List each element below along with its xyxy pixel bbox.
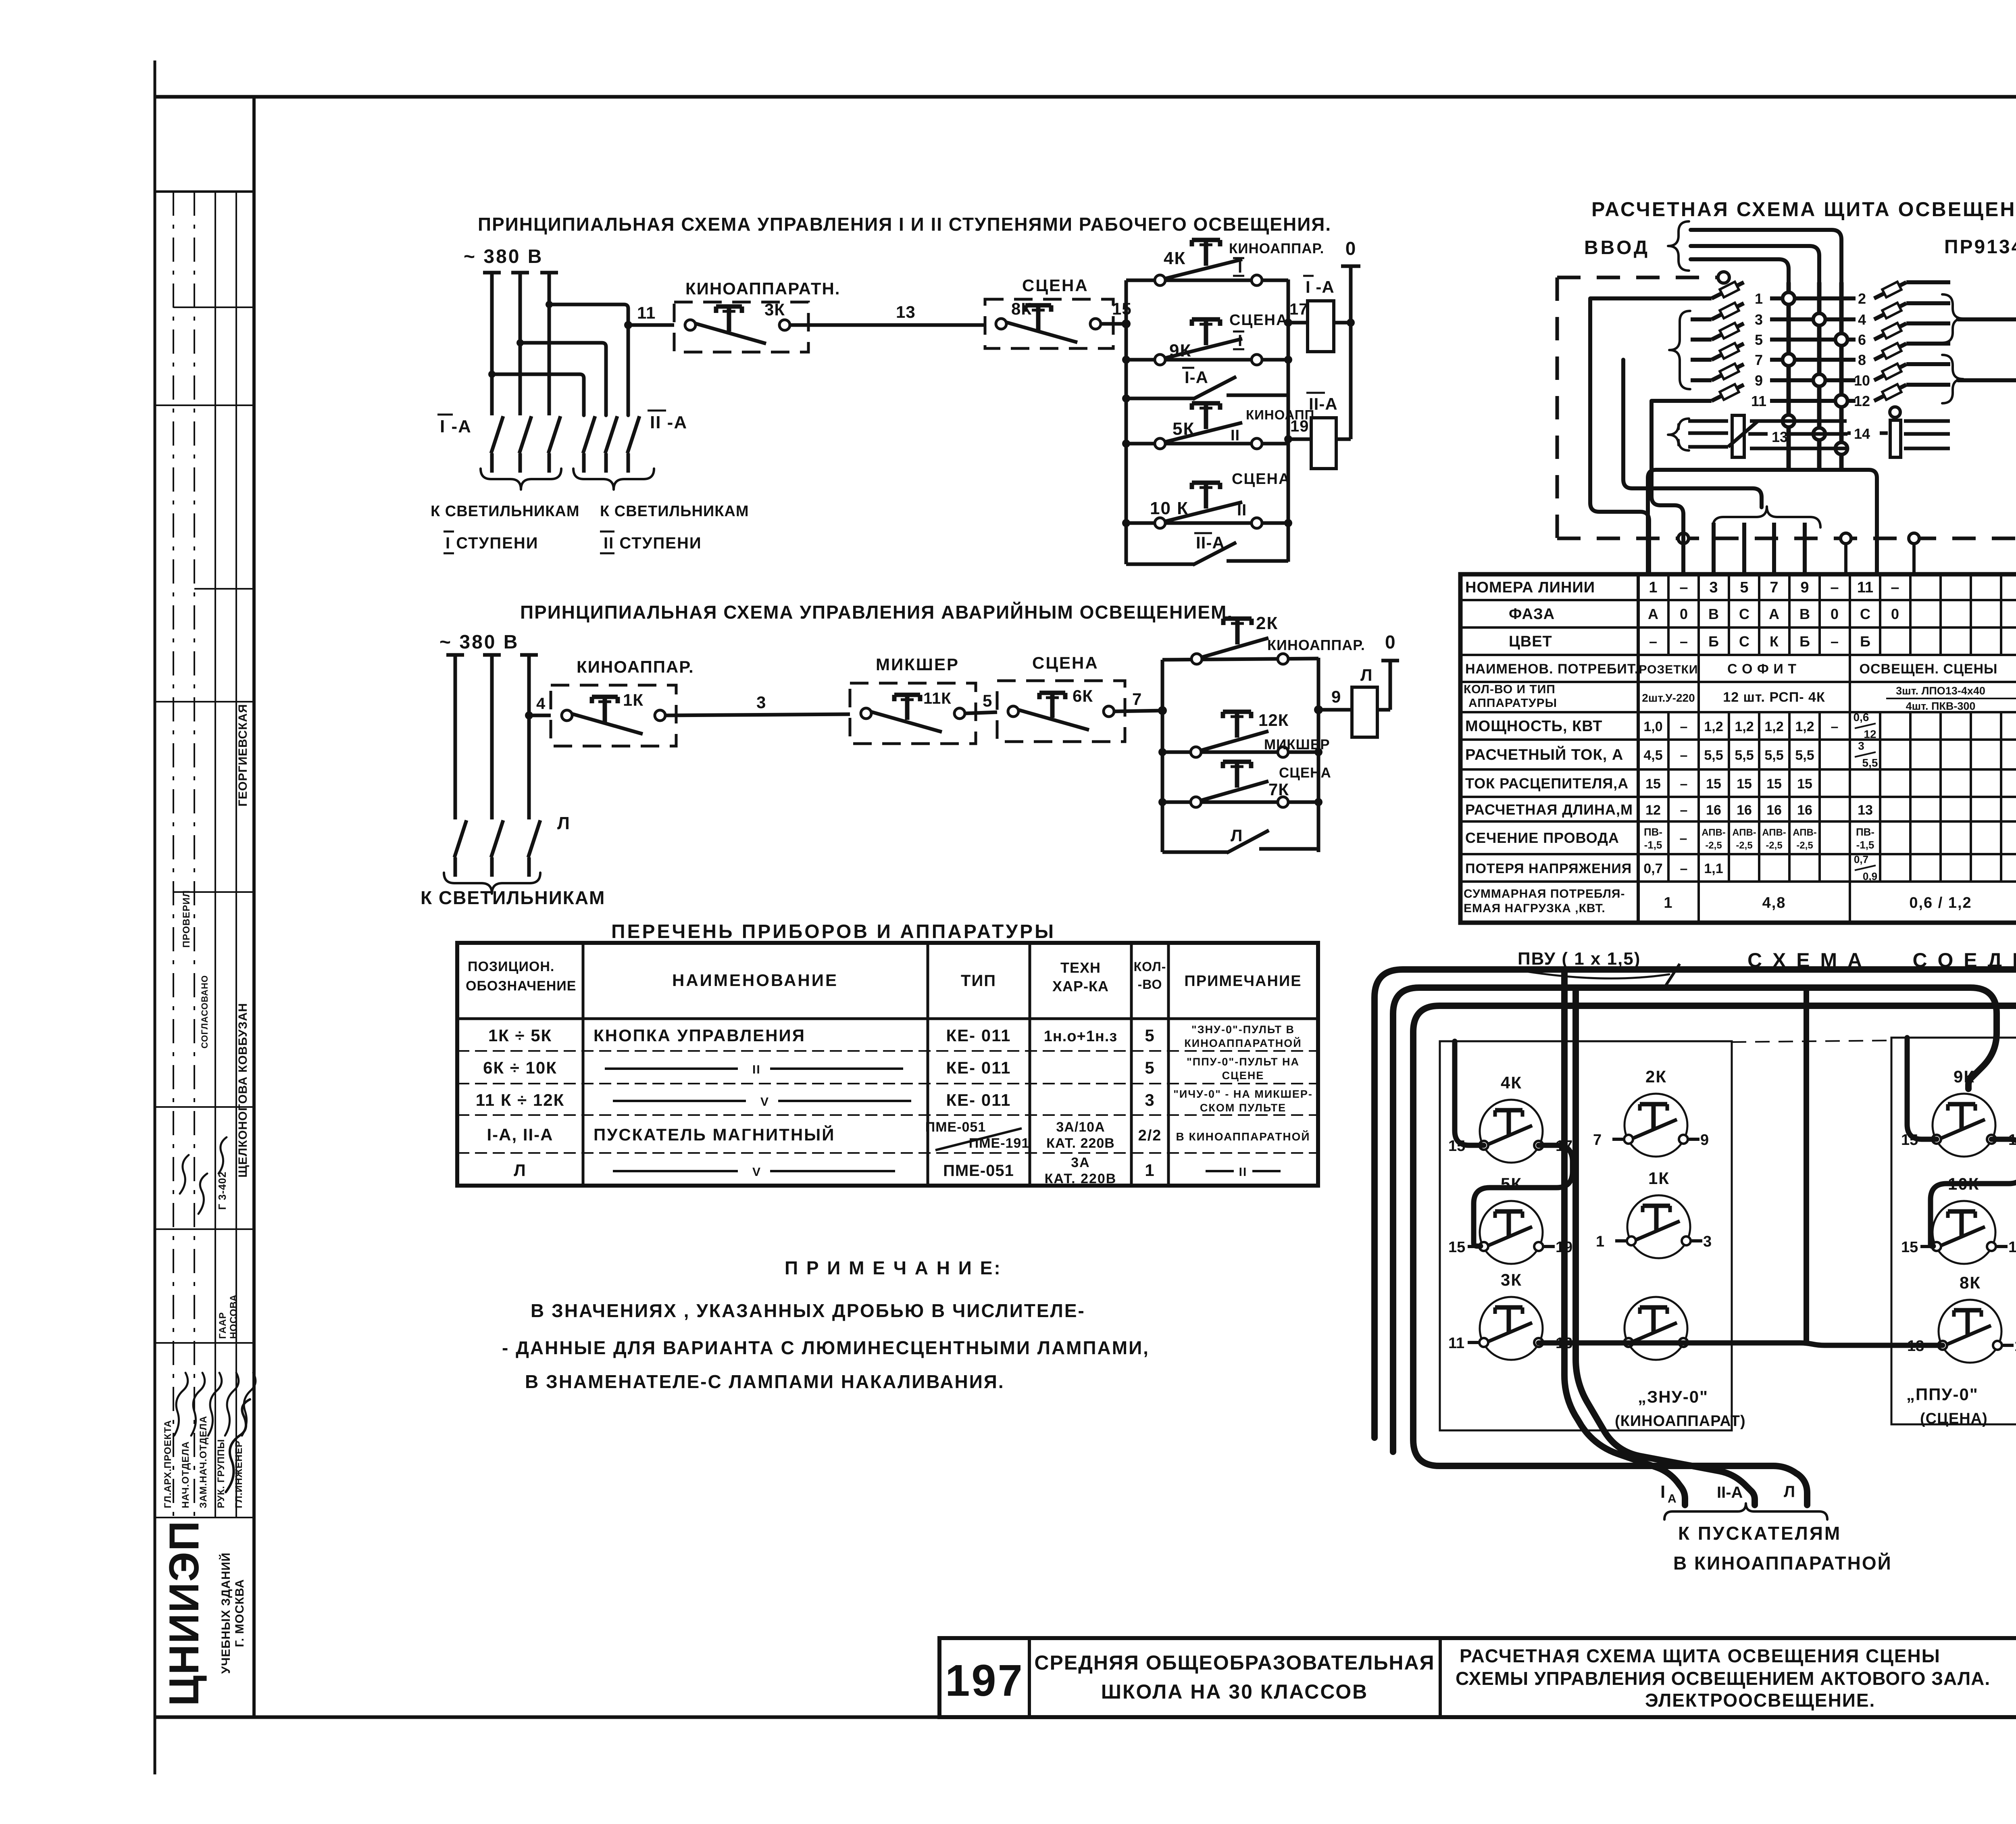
svg-text:2: 2 (1858, 290, 1866, 307)
circuit breaker line 3 (1691, 303, 1856, 328)
pushbutton 5K rung Kinoapp II (1126, 403, 1319, 449)
svg-text:5К: 5К (1501, 1174, 1522, 1193)
svg-text:12: 12 (1854, 393, 1870, 409)
svg-text:ГААР: ГААР (217, 1312, 228, 1339)
svg-text:С О Ф И Т: С О Ф И Т (1727, 661, 1797, 677)
svg-text:17: 17 (1289, 300, 1308, 318)
svg-text:КАТ. 220В: КАТ. 220В (1046, 1136, 1115, 1151)
ladder left rail (1122, 280, 1130, 564)
svg-text:СХЕМЫ УПРАВЛЕНИЯ ОСВЕЩЕНИЕМ А: СХЕМЫ УПРАВЛЕНИЯ ОСВЕЩЕНИЕМ АКТОВОГО ЗАЛ… (1456, 1668, 1990, 1689)
node 15 (1101, 299, 1132, 328)
pushbutton 5K terminals 15-19 (1448, 1174, 1572, 1264)
row release current A (1645, 776, 2016, 792)
phase buses bottom collector (1648, 470, 1877, 574)
svg-text:-2,5: -2,5 (1736, 840, 1752, 851)
svg-text:~ 380 В: ~ 380 В (464, 246, 543, 267)
svg-text:А: А (1769, 606, 1779, 622)
svg-text:АПВ-: АПВ- (1793, 827, 1817, 838)
row pushbuttons 1K-5K (488, 1024, 1302, 1049)
svg-text:КИНОАППАР.: КИНОАППАР. (1229, 241, 1324, 256)
svg-text:КОЛ-: КОЛ- (1134, 959, 1166, 974)
svg-text:А: А (1648, 606, 1658, 622)
svg-text:В ЗНАЧЕНИЯХ , УКАЗАННЫХ ДРОБЬ: В ЗНАЧЕНИЯХ , УКАЗАННЫХ ДРОБЬЮ В ЧИСЛИТЕ… (531, 1300, 1085, 1321)
load table grid (1460, 574, 2016, 923)
svg-text:-ВО: -ВО (1138, 977, 1162, 992)
svg-text:0,6 / 1,2: 0,6 / 1,2 (1909, 894, 1972, 911)
svg-text:РАСЧЕТНАЯ ДЛИНА,М: РАСЧЕТНАЯ ДЛИНА,М (1465, 801, 1633, 818)
svg-text:ГЛ.ИНЖЕНЕР: ГЛ.ИНЖЕНЕР (233, 1440, 244, 1508)
svg-text:15: 15 (1112, 299, 1132, 318)
svg-text:КЕ- 011: КЕ- 011 (946, 1058, 1011, 1077)
svg-text:СРЕДНЯЯ ОБЩЕОБРАЗОВАТЕЛЬНАЯ: СРЕДНЯЯ ОБЩЕОБРАЗОВАТЕЛЬНАЯ (1034, 1651, 1435, 1674)
svg-text:РАСЧЕТНЫЙ ТОК, А: РАСЧЕТНЫЙ ТОК, А (1465, 745, 1623, 763)
left stamp strip (155, 97, 254, 1717)
svg-text:К СВЕТИЛЬНИКАМ: К СВЕТИЛЬНИКАМ (600, 503, 749, 520)
row magnetic starters I-A II-A (487, 1119, 1310, 1151)
svg-text:II-А: II-А (1717, 1484, 1743, 1501)
svg-text:Г. МОСКВА: Г. МОСКВА (233, 1579, 246, 1647)
svg-text:15: 15 (1706, 776, 1721, 792)
svg-text:II: II (1231, 427, 1240, 444)
svg-text:СОГЛАСОВАНО: СОГЛАСОВАНО (200, 975, 210, 1049)
svg-text:В: В (1799, 606, 1810, 622)
svg-text:СЦЕНА: СЦЕНА (1032, 653, 1099, 672)
svg-text:V: V (760, 1095, 769, 1109)
svg-text:8К: 8К (1960, 1273, 1981, 1292)
svg-text:РУК. ГРУППЫ: РУК. ГРУППЫ (216, 1439, 227, 1508)
svg-text:5: 5 (1145, 1058, 1155, 1077)
svg-text:КНОПКА УПРАВЛЕНИЯ: КНОПКА УПРАВЛЕНИЯ (594, 1026, 806, 1045)
svg-text:11: 11 (637, 303, 656, 322)
pushbutton 9K terminals 15-17 (1901, 1067, 2016, 1157)
svg-text:12К: 12К (1258, 711, 1289, 730)
svg-text:4шт. ПКВ-300: 4шт. ПКВ-300 (1906, 700, 1976, 712)
svg-text:6: 6 (1858, 331, 1866, 348)
svg-text:2К: 2К (1256, 613, 1278, 633)
svg-text:АПВ-: АПВ- (1732, 827, 1756, 838)
group II brace and load label (573, 469, 749, 553)
svg-text:СУММАРНАЯ ПОТРЕБЛЯ-: СУММАРНАЯ ПОТРЕБЛЯ- (1464, 887, 1625, 901)
svg-text:15: 15 (1766, 776, 1782, 792)
circuit breaker line 4 (1858, 303, 1950, 328)
row voltage loss (1643, 853, 2016, 882)
svg-text:11: 11 (1751, 393, 1766, 409)
svg-text:1,0: 1,0 (1643, 719, 1662, 734)
wire trunk second run (1393, 988, 1997, 1452)
svg-text:Б: Б (1708, 633, 1719, 650)
svg-text:ТИП: ТИП (961, 972, 996, 990)
svg-text:ПВУ ( 1 х 1,5): ПВУ ( 1 х 1,5) (1518, 949, 1641, 969)
svg-text:2/2: 2/2 (1138, 1127, 1162, 1144)
svg-text:В КИНОАППАРАТНОЙ: В КИНОАППАРАТНОЙ (1176, 1130, 1310, 1143)
svg-text:К СВЕТИЛЬНИКАМ: К СВЕТИЛЬНИКАМ (431, 503, 580, 520)
contactor I-A main contacts (437, 415, 560, 473)
wire jumper L1 to II group (488, 371, 584, 415)
svg-text:II: II (1239, 1165, 1248, 1179)
svg-text:I -А: I -А (1306, 277, 1335, 296)
svg-text:ПРИНЦИПИАЛЬНАЯ СХЕМА УПРАВЛЕНИ: ПРИНЦИПИАЛЬНАЯ СХЕМА УПРАВЛЕНИЯ АВАРИЙНЫ… (520, 602, 1233, 623)
svg-text:15: 15 (1901, 1239, 1918, 1256)
svg-text:3: 3 (1858, 740, 1864, 752)
svg-text:ТОК РАСЦЕПИТЕЛЯ,А: ТОК РАСЦЕПИТЕЛЯ,А (1465, 775, 1629, 792)
circuit breaker line 5 (1691, 323, 1856, 348)
svg-text:10: 10 (1854, 372, 1870, 389)
svg-text:С: С (1739, 606, 1749, 622)
pushbutton 7K rung Scena (1162, 762, 1331, 807)
svg-text:–: – (1680, 748, 1688, 763)
input feeder lines (1691, 230, 1841, 468)
svg-text:4К: 4К (1164, 248, 1186, 268)
svg-text:ВВОД: ВВОД (1584, 237, 1650, 258)
fuse line 13 (1668, 415, 1847, 457)
svg-text:8К: 8К (1011, 299, 1032, 318)
svg-text:–: – (1680, 719, 1688, 734)
svg-text:19: 19 (1290, 417, 1309, 435)
svg-text:Л: Л (1784, 1483, 1795, 1501)
neutral 0 line emergency (1381, 632, 1399, 710)
svg-text:–: – (1830, 579, 1839, 596)
pushbutton 3K in Kinoapparatn box (674, 279, 840, 352)
svg-text:Л: Л (1360, 665, 1372, 684)
svg-text:3: 3 (1703, 1233, 1712, 1250)
control wire 5 (965, 691, 997, 713)
svg-text:7: 7 (1755, 352, 1763, 368)
svg-text:ПМЕ-191: ПМЕ-191 (969, 1136, 1030, 1151)
wire 4K pin15 feed (1455, 1041, 1484, 1145)
svg-text:РАСЧЕТНАЯ СХЕМА ЩИТА ОСВЕЩЕНИ: РАСЧЕТНАЯ СХЕМА ЩИТА ОСВЕЩЕНИЯ СЦЕНЫ (1460, 1645, 1941, 1666)
svg-text:Л: Л (557, 813, 571, 833)
svg-text:0: 0 (1345, 238, 1356, 259)
svg-text:-2,5: -2,5 (1796, 840, 1813, 851)
svg-text:Л: Л (1231, 826, 1243, 845)
svg-text:5: 5 (1145, 1026, 1155, 1045)
svg-text:I -А: I -А (440, 417, 472, 436)
svg-text:I СТУПЕНИ: I СТУПЕНИ (446, 534, 539, 552)
svg-text:-1,5: -1,5 (1644, 839, 1662, 851)
svg-text:К: К (1770, 633, 1779, 650)
svg-text:НОМЕРА ЛИНИИ: НОМЕРА ЛИНИИ (1465, 579, 1595, 596)
svg-text:II-А: II-А (1309, 394, 1338, 413)
svg-text:НАИМЕНОВАНИЕ: НАИМЕНОВАНИЕ (672, 971, 838, 990)
svg-text:6К ÷ 10К: 6К ÷ 10К (483, 1058, 557, 1077)
pushbutton 6K in Scena box (997, 653, 1125, 742)
control wire 11 (624, 303, 674, 329)
wire 9K pin15 feed (1907, 1038, 1937, 1139)
pushbutton 4K terminals 15-17 (1448, 1073, 1572, 1163)
svg-text:V: V (752, 1165, 761, 1179)
wire 8K to 3K run (1539, 1343, 1943, 1345)
svg-text:0: 0 (1385, 632, 1396, 652)
svg-text:13: 13 (1858, 803, 1873, 818)
phase bus L1 (483, 273, 501, 415)
svg-text:1К: 1К (623, 690, 644, 709)
pushbutton 1K in Kinoappar box (551, 657, 694, 746)
svg-text:7К: 7К (1268, 780, 1289, 799)
svg-text:ОБОЗНАЧЕНИЕ: ОБОЗНАЧЕНИЕ (466, 978, 576, 994)
neutral 0 line (1341, 238, 1360, 439)
svg-text:Г 3-402: Г 3-402 (216, 1172, 228, 1210)
svg-text:ЭЛЕКТРООСВЕЩЕНИЕ.: ЭЛЕКТРООСВЕЩЕНИЕ. (1645, 1690, 1875, 1711)
circuit breaker line 7 (1691, 343, 1856, 368)
svg-text:5,5: 5,5 (1704, 748, 1723, 763)
svg-text:СЦЕНЕ: СЦЕНЕ (1222, 1069, 1264, 1082)
svg-text:ОСВЕЩЕН. СЦЕНЫ: ОСВЕЩЕН. СЦЕНЫ (1860, 661, 1998, 677)
panel box PPU-0 scena (1891, 1038, 2016, 1427)
svg-text:–: – (1679, 579, 1688, 596)
soffit group feeder (1623, 360, 1820, 574)
svg-text:1,2: 1,2 (1735, 719, 1754, 734)
row design length m (1645, 803, 2016, 818)
svg-text:9: 9 (1800, 579, 1809, 596)
svg-text:МИКШЕР: МИКШЕР (876, 655, 959, 674)
svg-text:ЦВЕТ: ЦВЕТ (1509, 633, 1552, 650)
svg-text:КЕ- 011: КЕ- 011 (946, 1090, 1011, 1109)
svg-text:0: 0 (1831, 606, 1839, 622)
svg-text:АПВ-: АПВ- (1762, 827, 1786, 838)
svg-text:МОЩНОСТЬ, КВТ: МОЩНОСТЬ, КВТ (1465, 718, 1602, 735)
svg-text:–: – (1680, 831, 1688, 846)
svg-text:СЕЧЕНИЕ ПРОВОДА: СЕЧЕНИЕ ПРОВОДА (1465, 830, 1619, 846)
svg-text:МИКШЕР: МИКШЕР (1264, 737, 1330, 753)
node 9 and coil L (1318, 665, 1390, 737)
input feeder brace (1668, 221, 1689, 271)
auxiliary contact II-A rung (1126, 523, 1288, 565)
svg-text:ПМЕ-051: ПМЕ-051 (943, 1162, 1014, 1180)
svg-text:Л: Л (514, 1161, 526, 1180)
auxiliary contact L rung (1162, 826, 1318, 853)
svg-text:В: В (1708, 606, 1719, 622)
svg-text:АПВ-: АПВ- (1702, 827, 1726, 838)
svg-text:КАТ. 220В: КАТ. 220В (1045, 1171, 1117, 1186)
svg-text:–: – (1831, 719, 1839, 734)
svg-text:РОЗЕТКИ: РОЗЕТКИ (1639, 663, 1698, 676)
svg-text:II-А: II-А (1196, 533, 1225, 552)
svg-text:1,2: 1,2 (1704, 719, 1723, 734)
left feeder drop to row 1 (1590, 298, 1649, 574)
ladder right rail (1284, 279, 1292, 562)
svg-text:НАЧ.ОТДЕЛА: НАЧ.ОТДЕЛА (180, 1441, 191, 1508)
svg-text:ПУСКАТЕЛЬ МАГНИТНЫЙ: ПУСКАТЕЛЬ МАГНИТНЫЙ (594, 1125, 835, 1144)
svg-text:1: 1 (1664, 894, 1673, 911)
svg-text:11 К ÷ 12К: 11 К ÷ 12К (476, 1090, 564, 1109)
svg-text:0,6: 0,6 (1854, 711, 1869, 723)
svg-text:4: 4 (536, 695, 546, 713)
svg-text:1н.о+1н.з: 1н.о+1н.з (1044, 1028, 1118, 1045)
auxiliary contact I-A rung (1126, 368, 1288, 399)
svg-text:II -А: II -А (650, 413, 687, 432)
svg-text:ЗАМ.НАЧ.ОТДЕЛА: ЗАМ.НАЧ.ОТДЕЛА (198, 1416, 209, 1508)
svg-text:1: 1 (1145, 1161, 1155, 1180)
svg-text:–: – (1680, 803, 1688, 818)
control wire 13 (790, 302, 985, 325)
svg-text:197: 197 (945, 1656, 1024, 1705)
group I brace and load label (431, 469, 580, 553)
svg-text:1: 1 (1649, 579, 1657, 596)
svg-text:1: 1 (1755, 290, 1763, 307)
svg-text:ТЕХН: ТЕХН (1060, 959, 1101, 976)
row phase (1648, 606, 2016, 622)
svg-text:ХАР-КА: ХАР-КА (1052, 978, 1109, 994)
svg-text:1,2: 1,2 (1795, 719, 1814, 734)
ladder 2 left rail (1158, 660, 1167, 852)
title block sheet series number 197 (945, 1656, 1024, 1705)
svg-text:КОЛ-ВО И ТИП: КОЛ-ВО И ТИП (1464, 683, 1556, 696)
svg-text:9: 9 (1331, 687, 1341, 706)
svg-text:14: 14 (1854, 425, 1870, 442)
wire mid column riser 1 to I-A lead (1564, 969, 1685, 1505)
svg-text:ЩЕЛКОНОГОВА КОВБУЗАН: ЩЕЛКОНОГОВА КОВБУЗАН (236, 1003, 250, 1178)
svg-text:УЧЕБНЫХ ЗДАНИЙ: УЧЕБНЫХ ЗДАНИЙ (219, 1552, 233, 1674)
row pushbuttons 6K-10K (483, 1056, 1300, 1082)
pushbutton 10K rung Scena II (1126, 471, 1290, 528)
svg-text:ЦНИИЭП: ЦНИИЭП (161, 1520, 208, 1706)
pushbutton 11K in Miksher box (850, 655, 976, 744)
output brace lines 8-12 (1942, 355, 2016, 561)
svg-text:В ЗНАМЕНАТЕЛЕ-С ЛАМПАМИ НАК: В ЗНАМЕНАТЕЛЕ-С ЛАМПАМИ НАКАЛИВАНИЯ. (525, 1371, 1005, 1392)
svg-text:9: 9 (1700, 1132, 1709, 1149)
node 17 and coil I-A (1288, 276, 1351, 352)
svg-text:5,5: 5,5 (1735, 748, 1754, 763)
wire drop between boxes to 8K (1804, 988, 1809, 1343)
svg-text:12 шт. РСП- 4К: 12 шт. РСП- 4К (1723, 690, 1825, 705)
svg-text:11: 11 (1857, 579, 1873, 596)
svg-text:11: 11 (1448, 1335, 1464, 1352)
row power kW (1643, 711, 2016, 740)
svg-text:ПВ-: ПВ- (1856, 826, 1874, 838)
svg-text:С: С (1739, 633, 1749, 650)
pushbutton 1K terminals 1-3 (1596, 1169, 1712, 1258)
control wire 4 (525, 695, 551, 719)
svg-text:ПРИНЦИПИАЛЬНАЯ СХЕМА УПРАВЛЕНИ: ПРИНЦИПИАЛЬНАЯ СХЕМА УПРАВЛЕНИЯ I И II С… (478, 214, 1331, 235)
svg-text:(СЦЕНА): (СЦЕНА) (1920, 1410, 1988, 1427)
svg-text:ПМЕ-051: ПМЕ-051 (925, 1119, 986, 1135)
wire 9K loop (1931, 1139, 2016, 1246)
svg-text:-2,5: -2,5 (1766, 840, 1782, 851)
svg-text:II СТУПЕНИ: II СТУПЕНИ (604, 534, 702, 552)
svg-text:„ППУ-0": „ППУ-0" (1906, 1385, 1979, 1404)
schematic 1 title (478, 214, 1331, 235)
box top dashed bridge left-mid (1732, 1040, 1891, 1042)
svg-text:9: 9 (1755, 372, 1763, 389)
cross bus verticals (1783, 282, 1847, 468)
svg-text:ЕМАЯ НАГРУЗКА ,КВТ.: ЕМАЯ НАГРУЗКА ,КВТ. (1464, 902, 1606, 915)
svg-text:ФАЗА: ФАЗА (1509, 606, 1555, 623)
svg-text:3: 3 (1145, 1090, 1155, 1109)
phase bus L2 (511, 273, 529, 415)
row consumer names (1639, 660, 2016, 677)
svg-text:НОСОВА: НОСОВА (228, 1294, 239, 1339)
wire 4K loop (1474, 1145, 1572, 1246)
circuit breaker line 9 (1691, 364, 1856, 389)
svg-text:–: – (1649, 633, 1657, 650)
svg-text:3: 3 (1709, 579, 1718, 596)
svg-text:10 К: 10 К (1150, 498, 1189, 518)
svg-text:9К: 9К (1169, 341, 1191, 361)
pushbutton 3K terminals 11-13 (1448, 1270, 1572, 1360)
svg-text:СЦЕНА: СЦЕНА (1232, 471, 1290, 488)
node 19 and coil II-A (1288, 393, 1351, 469)
svg-text:0: 0 (1891, 606, 1899, 622)
panel type label PR9134-313 (1944, 236, 2016, 258)
pushbutton 2K rung Kinoappar (1162, 613, 1365, 664)
svg-text:5,5: 5,5 (1764, 748, 1783, 763)
svg-text:П Р И М Е Ч А Н И Е:: П Р И М Е Ч А Н И Е: (785, 1257, 1002, 1278)
row apparatus count and type (1642, 685, 2016, 712)
svg-text:15: 15 (2014, 1338, 2016, 1355)
svg-text:1,1: 1,1 (1704, 861, 1723, 876)
svg-text:КИНОАППАРАТН.: КИНОАППАРАТН. (685, 279, 840, 298)
svg-text:ПВ-: ПВ- (1644, 826, 1662, 838)
circuit breaker line 8 (1858, 343, 1950, 368)
calc schematic title (1591, 198, 2016, 221)
load table row labels (1464, 579, 1639, 915)
svg-text:Б: Б (1860, 633, 1870, 650)
svg-text:15: 15 (1448, 1239, 1465, 1256)
svg-text:"ИЧУ-0" - НА МИКШЕР-: "ИЧУ-0" - НА МИКШЕР- (1173, 1088, 1313, 1100)
svg-text:АППАРАТУРЫ: АППАРАТУРЫ (1468, 696, 1557, 710)
svg-text:16: 16 (1706, 803, 1721, 818)
svg-text:4К: 4К (1501, 1073, 1522, 1092)
circuit breaker line 1 (1590, 282, 1856, 307)
svg-text:КИНОАППАРАТНОЙ: КИНОАППАРАТНОЙ (1184, 1037, 1302, 1049)
row pushbuttons 11K-12K (476, 1088, 1313, 1114)
svg-text:–: – (1680, 861, 1688, 876)
svg-text:3К: 3К (1501, 1270, 1522, 1289)
pushbutton 2K terminals 7-9 (1593, 1067, 1709, 1157)
svg-text:7: 7 (1770, 579, 1778, 596)
svg-text:13: 13 (1772, 429, 1788, 445)
svg-text:К ПУСКАТЕЛЯМ: К ПУСКАТЕЛЯМ (1678, 1523, 1841, 1544)
svg-text:5: 5 (1740, 579, 1748, 596)
supply label ~380V emergency (439, 632, 519, 653)
wire trunk AVZ run to L lead (1413, 1006, 2016, 1505)
phase bus A (446, 655, 464, 819)
svg-text:2шт.У-220: 2шт.У-220 (1642, 692, 1695, 704)
svg-text:16: 16 (1766, 803, 1782, 818)
stamp strip rotated annotations (162, 704, 256, 1508)
svg-text:3: 3 (1755, 311, 1763, 328)
svg-text:К СВЕТИЛЬНИКАМ: К СВЕТИЛЬНИКАМ (421, 887, 605, 908)
svg-text:ПР9134-313: ПР9134-313 (1944, 236, 2016, 258)
dashed neutral loop (1557, 272, 2016, 574)
circuit breaker line 2 (1858, 282, 1950, 307)
svg-text:ШКОЛА НА 30 КЛАССОВ: ШКОЛА НА 30 КЛАССОВ (1101, 1680, 1368, 1703)
svg-text:1К: 1К (1648, 1169, 1670, 1188)
svg-text:12: 12 (1645, 803, 1661, 818)
svg-text:5: 5 (983, 691, 992, 710)
circuit breaker line 6 (1858, 323, 1950, 348)
svg-text:8: 8 (1858, 352, 1866, 368)
svg-text:"ППУ-0"-ПУЛЬТ НА: "ППУ-0"-ПУЛЬТ НА (1187, 1056, 1300, 1068)
title block project name (1034, 1651, 1435, 1703)
svg-text:19: 19 (2008, 1239, 2016, 1256)
svg-text:II: II (1237, 501, 1247, 519)
svg-text:1К ÷ 5К: 1К ÷ 5К (488, 1026, 552, 1045)
supply label ~380V (464, 246, 543, 267)
pushbutton 4K rung Kinoapp I (1126, 240, 1324, 286)
svg-text:С: С (1860, 606, 1870, 622)
row total load (1664, 894, 2016, 911)
ladder 2 right rail (1314, 658, 1323, 852)
svg-text:I-А, II-А: I-А, II-А (487, 1125, 554, 1144)
row design current A (1643, 740, 2016, 769)
svg-text:–: – (1680, 633, 1688, 650)
svg-text:4: 4 (1858, 311, 1866, 328)
svg-text:4,5: 4,5 (1643, 748, 1662, 763)
svg-text:ПОЗИЦИОН.: ПОЗИЦИОН. (468, 959, 554, 974)
equipment list title (611, 921, 1056, 942)
cable label PVU 1x1.5 (1518, 949, 1680, 989)
